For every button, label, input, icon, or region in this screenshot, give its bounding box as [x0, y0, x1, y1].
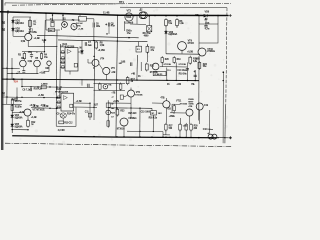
- svg-text:КД509А: КД509А: [169, 33, 178, 36]
- svg-text:+7В: +7В: [111, 93, 115, 95]
- svg-text:КТ315Б: КТ315Б: [135, 94, 143, 96]
- svg-text:0,5В: 0,5В: [21, 41, 26, 43]
- svg-text:КТ315Б: КТ315Б: [179, 64, 187, 66]
- svg-text:КТ361Б: КТ361Б: [37, 110, 45, 112]
- svg-text:4,7м: 4,7м: [205, 28, 210, 31]
- svg-text:+8В: +8В: [111, 72, 115, 74]
- svg-text:R9 75к: R9 75к: [15, 101, 23, 103]
- svg-text:VD6: VD6: [205, 10, 210, 13]
- svg-text:МБ: МБ: [195, 15, 199, 17]
- svg-text:4609: 4609: [144, 34, 150, 37]
- svg-text:+4В: +4В: [131, 73, 136, 76]
- svg-text:1000: 1000: [145, 111, 151, 113]
- svg-text:КР140УД1208: КР140УД1208: [61, 45, 75, 48]
- svg-text:С*: С*: [112, 97, 114, 99]
- svg-text:+1,5В: +1,5В: [76, 100, 82, 103]
- svg-text:КД510А: КД510А: [15, 30, 24, 33]
- svg-text:КД509А: КД509А: [15, 117, 23, 120]
- svg-text:+1,2В: +1,2В: [31, 117, 37, 119]
- svg-text:П416: П416: [126, 16, 132, 19]
- svg-text:+0,15В: +0,15В: [98, 49, 106, 52]
- svg-text:VT11: VT11: [176, 99, 182, 102]
- svg-text:+1,2В: +1,2В: [34, 37, 40, 40]
- svg-text:КТ315Б: КТ315Б: [164, 64, 172, 66]
- svg-text:100мк: 100мк: [207, 129, 214, 131]
- svg-text:4,3 0М: 4,3 0М: [58, 129, 65, 132]
- svg-text:ПГ1: ПГ1: [119, 0, 124, 4]
- svg-text:+0,7Б: +0,7Б: [113, 100, 119, 103]
- svg-text:1БЛ: 1БЛ: [158, 113, 163, 115]
- svg-text:КТ361Б: КТ361Б: [207, 51, 215, 53]
- svg-text:R19 56к: R19 56к: [179, 74, 188, 76]
- svg-text:ПБ: ПБ: [191, 84, 195, 86]
- svg-text:11,4В: 11,4В: [103, 10, 110, 14]
- svg-text:+СМ: +СМ: [176, 84, 181, 86]
- svg-text:1,5В: 1,5В: [100, 44, 105, 47]
- svg-text:VT3: VT3: [127, 9, 132, 12]
- svg-text:КТ315: КТ315: [188, 43, 195, 45]
- svg-text:КТ361А: КТ361А: [117, 127, 125, 130]
- svg-text:КТ315Б: КТ315Б: [29, 31, 37, 34]
- svg-text:47м: 47м: [111, 25, 115, 28]
- svg-text:КД510А: КД510А: [15, 22, 24, 25]
- svg-text:0,5В: 0,5В: [195, 58, 200, 60]
- svg-text:НБ: НБ: [119, 63, 122, 65]
- svg-text:УГ4Б R5: УГ4Б R5: [154, 73, 163, 76]
- svg-text:БЧБ: БЧБ: [76, 25, 81, 27]
- svg-text:3,87: 3,87: [94, 104, 99, 107]
- svg-text:+0,5В: +0,5В: [187, 51, 193, 54]
- svg-text:+СМБ: +СМБ: [169, 116, 176, 118]
- svg-text:4ТВ: 4ТВ: [160, 97, 164, 100]
- svg-text:17м: 17м: [127, 33, 131, 35]
- svg-text:1,4БК0: 1,4БК0: [41, 82, 48, 85]
- svg-text:+1В: +1В: [167, 109, 171, 111]
- svg-text:+1,5В: +1,5В: [38, 94, 44, 97]
